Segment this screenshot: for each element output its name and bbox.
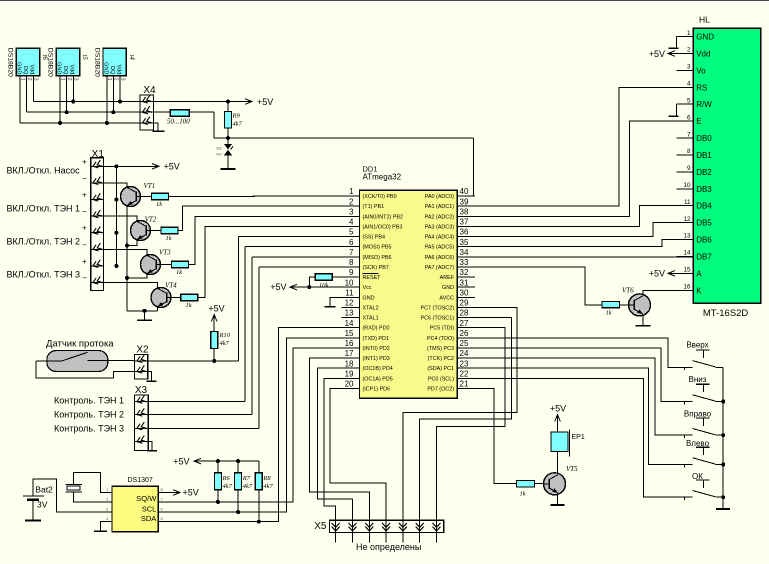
svg-text:(RXD) PD0: (RXD) PD0 — [363, 326, 390, 332]
svg-text:+: + — [82, 191, 87, 200]
svg-text:VT6: VT6 — [622, 286, 634, 294]
svg-text:27: 27 — [460, 319, 469, 328]
svg-text:4: 4 — [687, 81, 691, 88]
svg-text:D2: D2 — [217, 146, 223, 151]
svg-text:PD7 (OC2): PD7 (OC2) — [427, 386, 454, 392]
svg-text:GND: GND — [363, 295, 375, 301]
svg-text:HL: HL — [699, 15, 710, 25]
svg-text:37: 37 — [460, 218, 469, 227]
svg-text:GND: GND — [442, 285, 454, 291]
svg-text:17: 17 — [345, 349, 354, 358]
svg-text:R9: R9 — [232, 113, 241, 120]
svg-text:VT4: VT4 — [165, 281, 177, 289]
svg-text:40: 40 — [460, 187, 469, 196]
svg-text:31: 31 — [460, 278, 469, 287]
svg-text:GND: GND — [696, 33, 714, 42]
svg-text:EP1: EP1 — [572, 434, 585, 441]
svg-text:(INT0) PD2: (INT0) PD2 — [363, 346, 390, 352]
svg-text:7: 7 — [349, 248, 354, 257]
svg-text:50...100: 50...100 — [167, 118, 190, 126]
svg-text:10: 10 — [345, 278, 354, 287]
svg-text:26: 26 — [460, 329, 469, 338]
svg-text:DB4: DB4 — [696, 202, 712, 211]
svg-text:ВКЛ./Откл. ТЭН 1: ВКЛ./Откл. ТЭН 1 — [7, 204, 81, 214]
svg-text:+: + — [82, 257, 87, 266]
svg-text:SQ/W: SQ/W — [136, 494, 157, 503]
svg-text:+5V: +5V — [183, 488, 199, 498]
svg-text:1k: 1k — [520, 490, 526, 497]
svg-text:Влево: Влево — [686, 439, 710, 448]
svg-text:36: 36 — [460, 228, 469, 237]
svg-text:6: 6 — [349, 238, 354, 247]
svg-text:1k: 1k — [156, 201, 162, 208]
svg-text:(AIN0/INT2) PB2: (AIN0/INT2) PB2 — [363, 214, 403, 220]
svg-text:10: 10 — [683, 182, 691, 189]
svg-text:24: 24 — [460, 349, 469, 358]
svg-text:MT-16S2D: MT-16S2D — [703, 308, 749, 319]
svg-text:DQ: DQ — [109, 66, 115, 75]
svg-text:1: 1 — [349, 187, 354, 196]
svg-text:+5V: +5V — [649, 49, 665, 59]
svg-text:PA2 (ADC2): PA2 (ADC2) — [425, 214, 454, 220]
svg-text:R8: R8 — [262, 475, 271, 482]
svg-text:Vdd: Vdd — [115, 65, 121, 75]
svg-text:ВКЛ./Откл. ТЭН 3: ВКЛ./Откл. ТЭН 3 — [7, 269, 81, 279]
svg-text:Контроль. ТЭН 3: Контроль. ТЭН 3 — [54, 424, 124, 434]
svg-text:(OC1B) PD4: (OC1B) PD4 — [363, 366, 393, 372]
svg-text:+: + — [82, 224, 87, 233]
svg-text:32: 32 — [460, 268, 469, 277]
svg-text:8: 8 — [687, 148, 691, 155]
svg-text:t5: t5 — [81, 55, 88, 61]
svg-text:4k7: 4k7 — [220, 340, 230, 347]
svg-text:PA5 (ADC5): PA5 (ADC5) — [425, 245, 454, 251]
svg-text:Контроль. ТЭН 1: Контроль. ТЭН 1 — [54, 396, 124, 406]
svg-text:29: 29 — [460, 299, 469, 308]
svg-text:R/W: R/W — [696, 100, 712, 109]
svg-text:+5V: +5V — [173, 457, 189, 467]
svg-text:DS18B20: DS18B20 — [47, 48, 54, 77]
svg-text:Vdd: Vdd — [69, 65, 75, 75]
svg-text:(TCK) PC2: (TCK) PC2 — [428, 356, 454, 362]
svg-text:(T1) PB1: (T1) PB1 — [363, 204, 385, 210]
svg-text:4k7: 4k7 — [233, 121, 243, 128]
svg-text:RS: RS — [696, 83, 707, 92]
svg-text:4k7: 4k7 — [263, 483, 273, 490]
svg-text:−: − — [82, 274, 87, 283]
svg-text:35: 35 — [460, 238, 469, 247]
svg-text:1k: 1k — [186, 302, 192, 309]
svg-text:25: 25 — [460, 339, 469, 348]
svg-text:(OC1A) PD5: (OC1A) PD5 — [363, 376, 393, 382]
svg-text:R10: R10 — [219, 332, 231, 339]
svg-text:DS1307: DS1307 — [128, 477, 153, 484]
svg-text:(ICP1) PD6: (ICP1) PD6 — [363, 386, 391, 392]
svg-text:VT1: VT1 — [144, 182, 156, 190]
svg-text:3: 3 — [687, 64, 691, 71]
svg-text:16: 16 — [683, 283, 691, 290]
svg-text:PC4 (TDO): PC4 (TDO) — [427, 336, 454, 342]
svg-text:−: − — [82, 174, 87, 183]
svg-text:+5V: +5V — [257, 97, 273, 107]
svg-text:Vo: Vo — [696, 66, 706, 75]
svg-text:AREF: AREF — [440, 275, 455, 281]
svg-text:Vdd: Vdd — [696, 50, 710, 59]
svg-text:3: 3 — [349, 207, 354, 216]
svg-text:2: 2 — [687, 47, 691, 54]
svg-text:16: 16 — [345, 339, 354, 348]
svg-text:10k: 10k — [319, 282, 329, 289]
svg-text:13: 13 — [683, 233, 691, 240]
svg-text:(TMS) PC3: (TMS) PC3 — [427, 346, 454, 352]
svg-text:DB0: DB0 — [696, 134, 712, 143]
svg-text:Контроль. ТЭН 2: Контроль. ТЭН 2 — [54, 410, 124, 420]
svg-text:5: 5 — [687, 97, 691, 104]
svg-text:38: 38 — [460, 207, 469, 216]
svg-text:VT5: VT5 — [566, 465, 578, 473]
svg-text:DB2: DB2 — [696, 168, 712, 177]
svg-text:PC5 (TDI): PC5 (TDI) — [430, 326, 454, 332]
svg-text:12: 12 — [683, 216, 691, 223]
svg-text:14: 14 — [345, 319, 354, 328]
svg-text:39: 39 — [460, 197, 469, 206]
svg-text:+5V: +5V — [649, 269, 665, 279]
svg-text:DB6: DB6 — [696, 236, 712, 245]
svg-text:DB5: DB5 — [696, 219, 712, 228]
svg-text:5: 5 — [349, 228, 354, 237]
svg-text:(INT1) PD3: (INT1) PD3 — [363, 356, 390, 362]
svg-text:GND: GND — [56, 62, 62, 74]
svg-text:VT2: VT2 — [145, 215, 157, 223]
svg-text:28: 28 — [460, 309, 469, 318]
svg-text:DB7: DB7 — [696, 252, 712, 261]
svg-text:Vdd: Vdd — [29, 65, 35, 75]
svg-text:R6: R6 — [222, 475, 231, 482]
svg-text:PA0 (ADC0): PA0 (ADC0) — [425, 194, 454, 200]
svg-text:(XCK/T0) PB0: (XCK/T0) PB0 — [363, 194, 397, 200]
svg-text:Bat2: Bat2 — [35, 484, 53, 494]
svg-text:14: 14 — [683, 250, 691, 257]
svg-text:−: − — [82, 207, 87, 216]
svg-text:GND: GND — [102, 62, 108, 74]
svg-text:(SDA) PC1: (SDA) PC1 — [427, 366, 454, 372]
svg-text:22: 22 — [460, 369, 469, 378]
svg-text:12: 12 — [345, 299, 354, 308]
svg-text:2: 2 — [349, 197, 354, 206]
svg-text:X2: X2 — [136, 344, 149, 355]
svg-text:PA1 (ADC1): PA1 (ADC1) — [425, 204, 454, 210]
svg-text:RESET: RESET — [363, 275, 382, 281]
svg-text:Не определены: Не определены — [356, 542, 421, 552]
svg-text:ВКЛ./Откл. ТЭН 2: ВКЛ./Откл. ТЭН 2 — [7, 237, 81, 247]
svg-text:PC0 (SCL): PC0 (SCL) — [428, 376, 454, 382]
svg-text:(SCK) PB7: (SCK) PB7 — [363, 265, 389, 271]
svg-text:SDA: SDA — [141, 514, 156, 523]
svg-text:1k: 1k — [166, 235, 172, 242]
svg-text:11: 11 — [684, 199, 691, 206]
svg-text:XTAL2: XTAL2 — [363, 305, 379, 311]
svg-text:DS18B20: DS18B20 — [93, 48, 100, 77]
svg-text:21: 21 — [460, 380, 469, 389]
svg-text:34: 34 — [460, 248, 469, 257]
svg-text:8: 8 — [349, 258, 354, 267]
svg-text:PA6 (ADC6): PA6 (ADC6) — [425, 255, 454, 261]
svg-text:13: 13 — [345, 309, 354, 318]
svg-text:33: 33 — [460, 258, 469, 267]
svg-text:GND: GND — [16, 62, 22, 74]
svg-text:Вправо: Вправо — [684, 409, 712, 418]
svg-text:19: 19 — [345, 369, 354, 378]
svg-text:20: 20 — [345, 380, 354, 389]
svg-text:(MOSI) PB5: (MOSI) PB5 — [363, 245, 392, 251]
svg-text:PC6 (TOSC1): PC6 (TOSC1) — [421, 316, 455, 322]
svg-text:9: 9 — [687, 165, 691, 172]
svg-text:(AIN1/OC0) PB3: (AIN1/OC0) PB3 — [363, 224, 403, 230]
svg-text:4k7: 4k7 — [223, 483, 233, 490]
svg-text:PC7 (TOSC2): PC7 (TOSC2) — [421, 305, 455, 311]
svg-text:1k: 1k — [176, 269, 182, 276]
svg-text:R7: R7 — [242, 475, 251, 482]
svg-text:ATmega32: ATmega32 — [363, 173, 402, 182]
svg-text:PA4 (ADC4): PA4 (ADC4) — [425, 235, 454, 241]
svg-text:KV: KV — [217, 152, 223, 157]
svg-text:DS18B20: DS18B20 — [7, 48, 14, 77]
svg-text:K: K — [696, 286, 702, 295]
svg-text:Датчик протока: Датчик протока — [46, 338, 114, 349]
svg-text:18: 18 — [345, 359, 354, 368]
svg-text:15: 15 — [345, 329, 354, 338]
svg-text:DB1: DB1 — [696, 151, 712, 160]
svg-text:Вниз: Вниз — [689, 375, 707, 384]
svg-text:DQ: DQ — [22, 66, 28, 75]
svg-text:Vcc: Vcc — [363, 285, 372, 291]
svg-text:E: E — [696, 117, 701, 126]
svg-text:9: 9 — [349, 268, 354, 277]
svg-text:15: 15 — [683, 267, 691, 274]
svg-text:6: 6 — [687, 114, 691, 121]
svg-text:t4: t4 — [128, 55, 135, 61]
svg-text:ВКЛ./Откл. Насос: ВКЛ./Откл. Насос — [7, 166, 81, 176]
svg-text:30: 30 — [460, 288, 469, 297]
svg-text:4: 4 — [349, 218, 354, 227]
svg-text:(TXD) PD1: (TXD) PD1 — [363, 336, 389, 342]
svg-text:PA7 (ADC7): PA7 (ADC7) — [425, 265, 454, 271]
svg-text:+5V: +5V — [550, 404, 566, 414]
svg-text:SCL: SCL — [142, 504, 157, 513]
svg-text:+5V: +5V — [270, 282, 286, 292]
svg-text:+5V: +5V — [164, 162, 180, 172]
svg-text:−: − — [82, 240, 87, 249]
svg-text:23: 23 — [460, 359, 469, 368]
svg-text:4k7: 4k7 — [243, 483, 253, 490]
svg-text:1: 1 — [687, 30, 691, 37]
svg-text:11: 11 — [345, 288, 354, 297]
svg-text:XTAL1: XTAL1 — [363, 316, 379, 322]
svg-text:A: A — [696, 269, 702, 278]
svg-text:X5: X5 — [314, 521, 327, 532]
svg-text:PA3 (ADC3): PA3 (ADC3) — [425, 224, 454, 230]
svg-text:DB3: DB3 — [696, 185, 712, 194]
svg-text:(MISO) PB6: (MISO) PB6 — [363, 255, 392, 261]
svg-text:Вверх: Вверх — [686, 340, 708, 349]
svg-text:AVCC: AVCC — [439, 295, 454, 301]
svg-text:DQ: DQ — [62, 66, 68, 75]
svg-text:(SS) PB4: (SS) PB4 — [363, 235, 385, 241]
svg-text:VT3: VT3 — [159, 249, 171, 257]
svg-text:+5V: +5V — [208, 304, 224, 314]
svg-text:+: + — [82, 157, 87, 166]
svg-text:1k: 1k — [606, 309, 612, 316]
svg-text:7: 7 — [687, 131, 691, 138]
